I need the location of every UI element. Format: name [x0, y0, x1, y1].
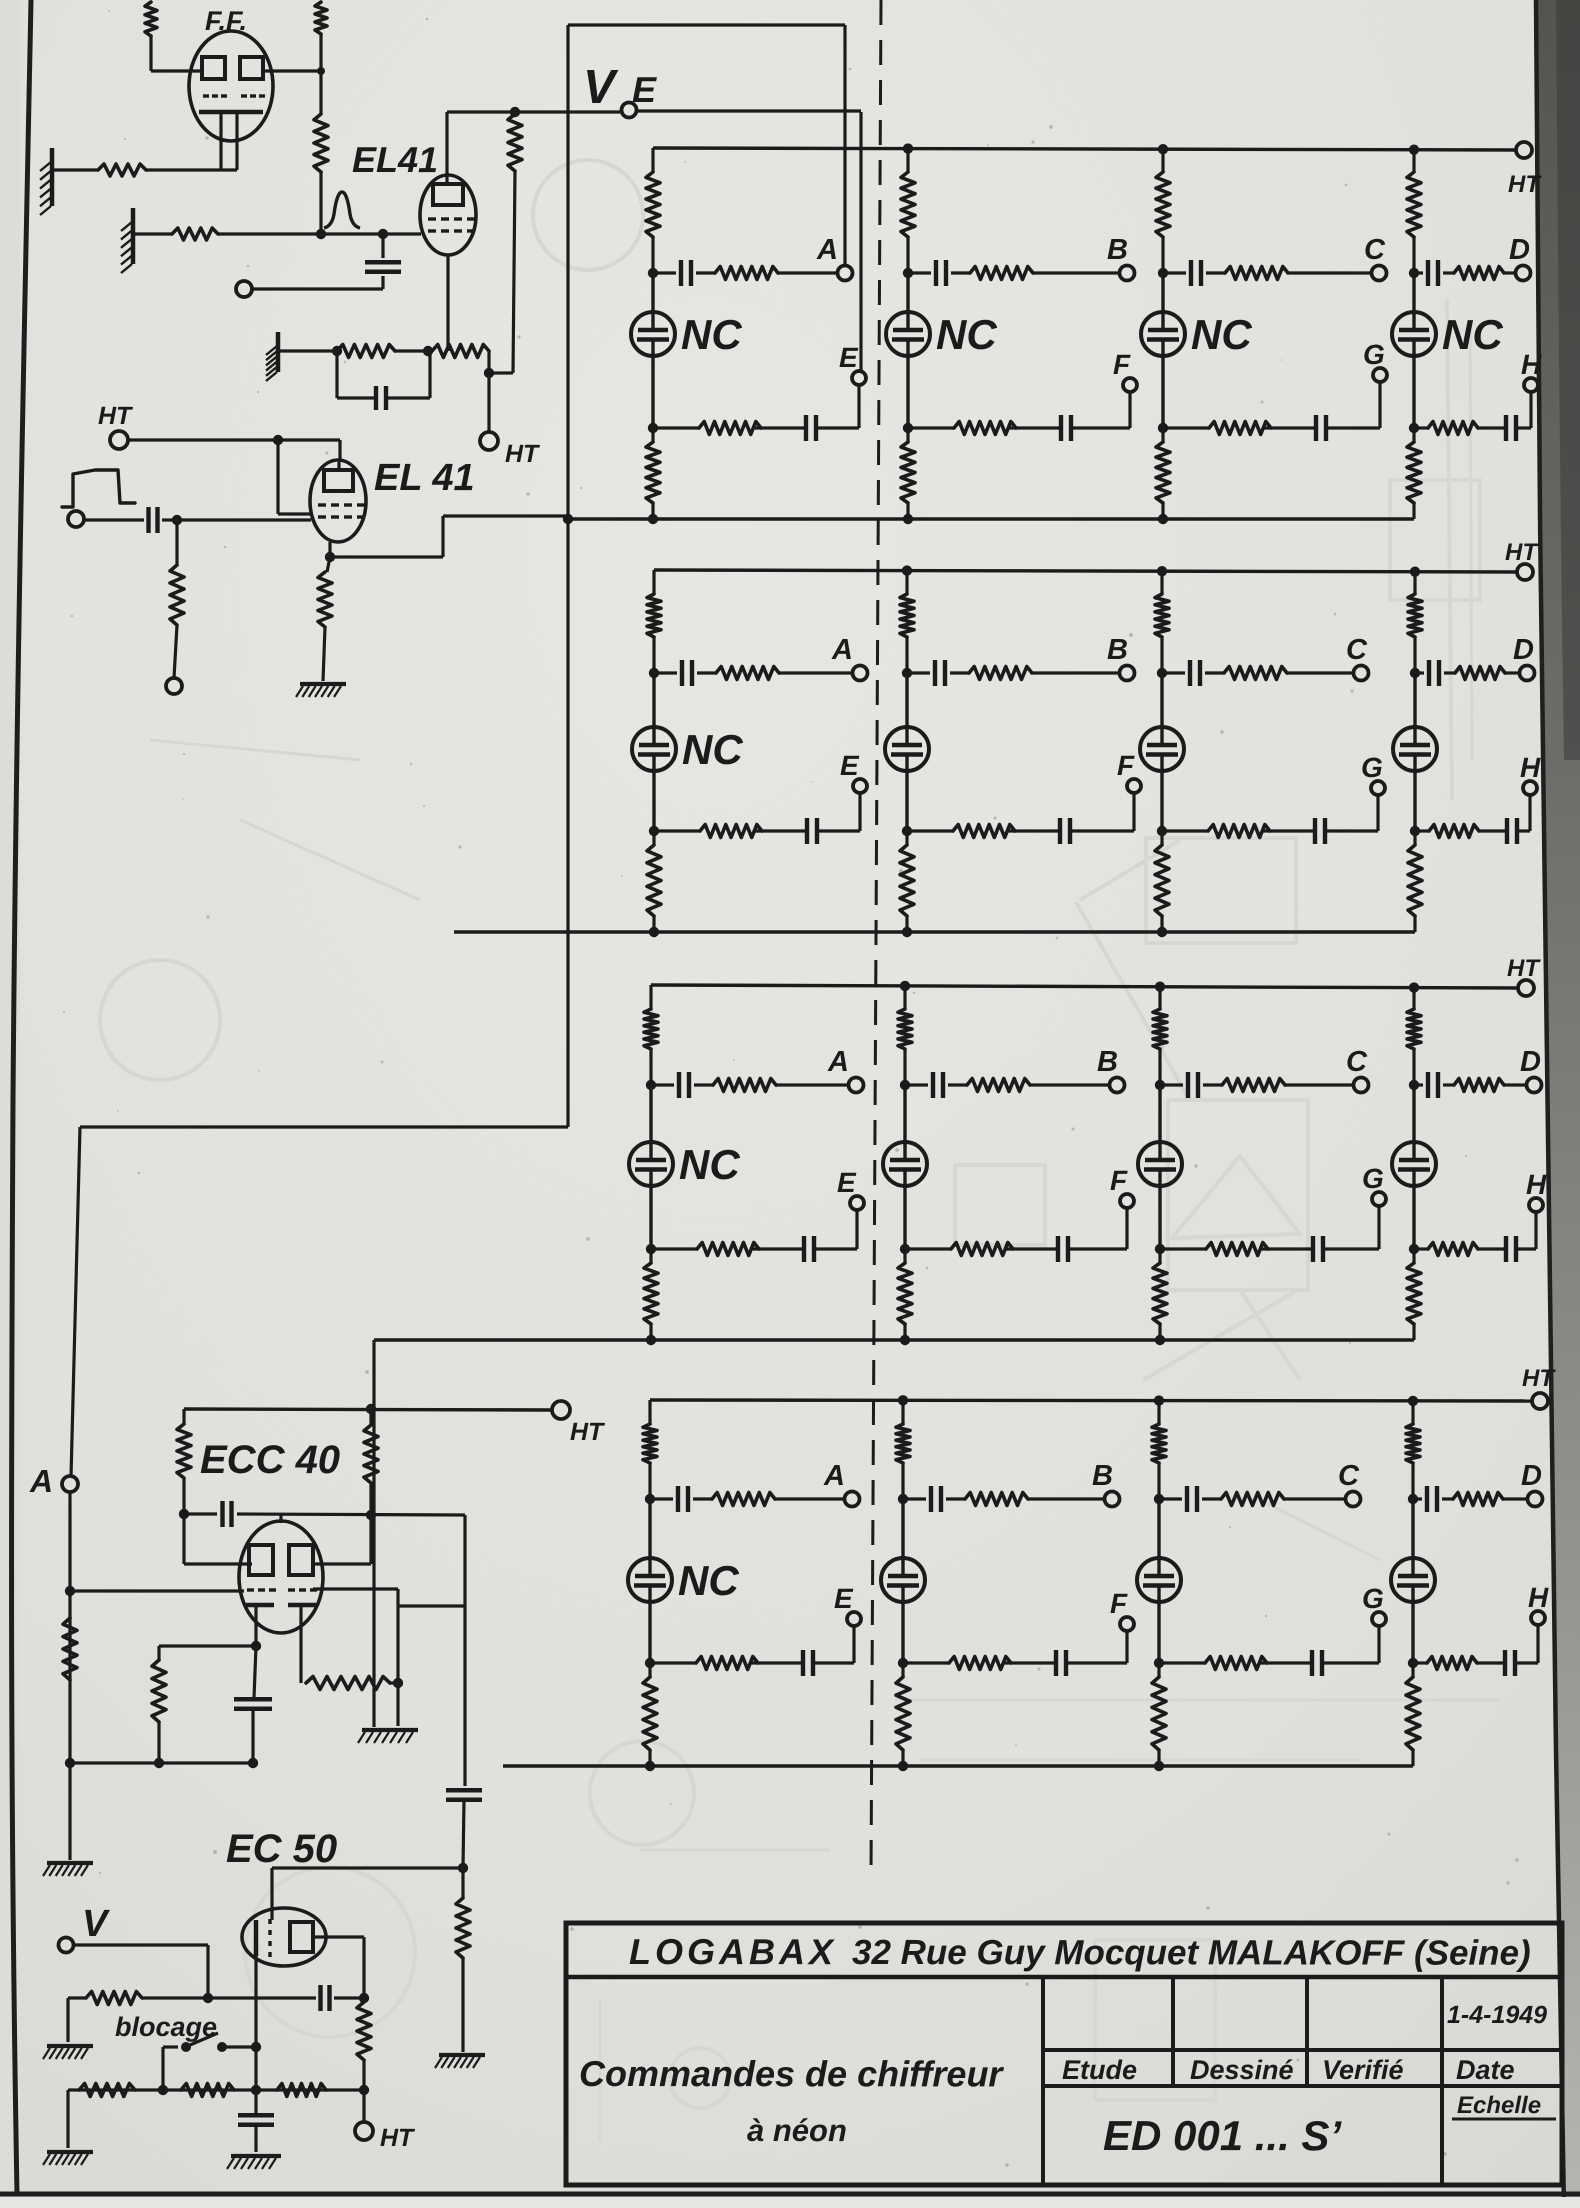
- svg-text:C: C: [1346, 634, 1368, 666]
- svg-text:HT: HT: [1505, 539, 1539, 566]
- svg-text:V: V: [82, 1903, 110, 1945]
- svg-text:HT: HT: [1522, 1365, 1556, 1392]
- svg-text:NC: NC: [681, 311, 742, 358]
- svg-text:D: D: [1513, 634, 1534, 666]
- svg-text:EL 41: EL 41: [374, 457, 475, 499]
- svg-text:C: C: [1364, 234, 1386, 266]
- svg-text:ED 001 ... S’: ED 001 ... S’: [1103, 2112, 1342, 2159]
- svg-text:G: G: [1361, 752, 1383, 783]
- svg-text:HT: HT: [98, 402, 134, 430]
- svg-text:H: H: [1528, 1582, 1549, 1613]
- svg-text:NC: NC: [1191, 311, 1252, 358]
- svg-text:H: H: [1526, 1169, 1547, 1200]
- svg-text:E: E: [840, 750, 860, 781]
- svg-text:A: A: [831, 634, 853, 666]
- svg-text:HT: HT: [1508, 171, 1542, 198]
- svg-text:B: B: [1097, 1046, 1118, 1078]
- svg-text:G: G: [1362, 1163, 1384, 1194]
- svg-text:G: G: [1362, 1583, 1384, 1614]
- svg-text:à néon: à néon: [747, 2113, 847, 2148]
- svg-text:B: B: [1107, 234, 1128, 266]
- svg-text:Verifié: Verifié: [1322, 2055, 1404, 2085]
- svg-text:HT: HT: [380, 2124, 416, 2152]
- svg-text:NC: NC: [678, 1557, 739, 1604]
- svg-text:B: B: [1092, 1460, 1113, 1492]
- svg-text:F: F: [1110, 1165, 1128, 1196]
- svg-text:HT: HT: [1507, 955, 1541, 982]
- svg-text:blocage: blocage: [115, 2012, 217, 2042]
- svg-text:1-4-1949: 1-4-1949: [1447, 2001, 1547, 2029]
- svg-text:HT: HT: [505, 440, 541, 468]
- svg-text:Dessiné: Dessiné: [1190, 2055, 1294, 2085]
- svg-text:H: H: [1521, 349, 1542, 380]
- svg-text:EC 50: EC 50: [226, 1827, 337, 1871]
- svg-text:A: A: [827, 1046, 849, 1078]
- svg-text:32 Rue Guy Mocquet MALAKOFF (S: 32 Rue Guy Mocquet MALAKOFF (Seine): [852, 1933, 1531, 1973]
- svg-text:F: F: [1117, 750, 1135, 781]
- svg-text:C: C: [1338, 1460, 1360, 1492]
- svg-text:HT: HT: [570, 1418, 606, 1446]
- svg-text:H: H: [1520, 752, 1541, 783]
- svg-text:F: F: [1113, 349, 1131, 380]
- svg-text:ECC 40: ECC 40: [200, 1438, 340, 1482]
- svg-text:Date: Date: [1456, 2055, 1515, 2085]
- svg-text:D: D: [1520, 1046, 1541, 1078]
- svg-text:Commandes de chiffreur: Commandes de chiffreur: [579, 2053, 1004, 2094]
- svg-text:NC: NC: [1442, 311, 1503, 358]
- svg-text:NC: NC: [682, 726, 743, 773]
- svg-text:F: F: [1110, 1588, 1128, 1619]
- svg-text:V: V: [583, 61, 619, 114]
- svg-text:Etude: Etude: [1062, 2055, 1137, 2085]
- svg-text:E: E: [839, 342, 859, 373]
- svg-text:EL41: EL41: [352, 139, 438, 180]
- svg-text:NC: NC: [679, 1141, 740, 1188]
- svg-text:E: E: [834, 1583, 854, 1614]
- svg-text:A: A: [29, 1463, 53, 1499]
- svg-text:G: G: [1363, 339, 1385, 370]
- svg-text:NC: NC: [936, 311, 997, 358]
- svg-text:A: A: [816, 234, 838, 266]
- svg-text:D: D: [1521, 1460, 1542, 1492]
- svg-text:Echelle: Echelle: [1457, 2092, 1541, 2119]
- svg-text:B: B: [1107, 634, 1128, 666]
- svg-text:LOGABAX: LOGABAX: [629, 1931, 837, 1972]
- svg-text:C: C: [1346, 1046, 1368, 1078]
- svg-text:D: D: [1509, 234, 1530, 266]
- svg-text:E: E: [632, 69, 657, 110]
- svg-text:A: A: [823, 1460, 845, 1492]
- svg-text:E: E: [837, 1167, 857, 1198]
